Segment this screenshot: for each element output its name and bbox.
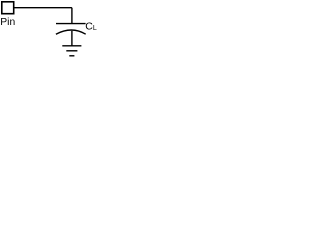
svg-text:Pin: Pin [0,17,15,28]
capacitor CL top plate [56,23,86,25]
pin box [2,2,14,14]
ground [62,46,81,56]
wire [14,7,72,9]
wire [71,31,73,46]
wire [71,8,73,24]
svg-text:L: L [93,25,97,32]
capacitor CL bottom curved plate [56,30,86,34]
